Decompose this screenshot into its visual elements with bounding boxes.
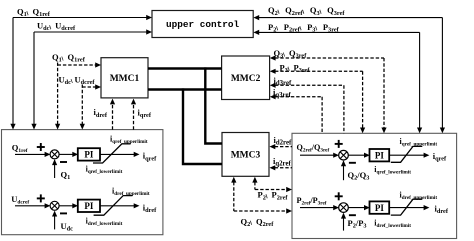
wire feedback into summing junction — [54, 160, 56, 178]
svg-text:PI: PI — [84, 150, 93, 160]
wire idref from left controller to MMC1 — [112, 104, 114, 130]
summing junction — [50, 201, 59, 210]
svg-text:PI: PI — [375, 150, 384, 160]
wire PI to output — [389, 154, 424, 156]
plus sign — [335, 195, 343, 197]
limiter (saturation) — [391, 199, 423, 215]
wire iq3ref from right controller to MMC2 — [270, 94, 322, 133]
wire feedback into summing junction — [54, 212, 56, 230]
wire Udc,Udcref to upper control — [31, 29, 152, 129]
wire dc bus branch to MMC3 lower — [183, 88, 222, 164]
wire setpoint into summing junction — [300, 207, 334, 209]
block upper control — [152, 11, 253, 38]
wire setpoint into summing junction — [15, 153, 46, 155]
wire P3,P3ref to MMC2 and right controller — [270, 69, 365, 134]
limiter (saturation) — [391, 146, 423, 162]
wire feedback into summing junction — [343, 214, 345, 231]
plus sign — [37, 146, 45, 148]
controller box right (MMC2/MMC3 local control) — [292, 133, 457, 238]
wire Q3,Q3ref to MMC2 and right controller — [270, 55, 387, 133]
minus sign — [349, 214, 356, 216]
wire dc bus MMC1 to MMC2 upper — [148, 67, 222, 69]
wire setpoint into summing junction — [300, 154, 334, 156]
wire summing junction to PI — [348, 207, 364, 209]
wire P2,P2ref to MMC3 and right controller — [252, 177, 292, 192]
wire Udc,Udcref to MMC1 and left controller — [80, 84, 101, 129]
wire feedback into summing junction — [343, 161, 345, 180]
wire summing junction to PI — [348, 154, 364, 156]
limiter (saturation) — [93, 144, 131, 163]
block MMC2 — [222, 56, 270, 100]
wire PI to output — [100, 205, 135, 207]
plus sign — [335, 143, 343, 145]
svg-text:MMC3: MMC3 — [231, 151, 261, 161]
summing junction — [339, 150, 349, 160]
wire summing junction to PI — [59, 205, 73, 207]
svg-text:PI: PI — [375, 203, 384, 213]
minus sign — [60, 161, 67, 163]
limiter (saturation) — [94, 196, 133, 216]
PI controller — [370, 201, 390, 213]
minus sign — [349, 162, 356, 164]
wire Q2,Q2ref to MMC3 and right controller — [231, 177, 292, 214]
wire PI to output — [389, 207, 424, 209]
summing junction — [339, 203, 349, 213]
plus sign — [37, 197, 45, 199]
wire dc bus MMC1 to MMC2 lower — [148, 88, 222, 90]
wire id3ref from right controller to MMC2 — [270, 83, 344, 134]
wire summing junction to PI — [59, 153, 73, 155]
wire id2ref from right controller to MMC3 — [270, 144, 276, 149]
wire Q2,Q2ref,Q3,Q3ref to upper control and right controller — [253, 15, 445, 133]
wire setpoint into summing junction — [15, 205, 46, 207]
wire iq2ref from right controller to MMC3 — [270, 165, 276, 170]
svg-text:MMC1: MMC1 — [110, 74, 140, 84]
PI controller — [370, 149, 390, 161]
PI controller — [78, 148, 100, 160]
block MMC3 — [222, 133, 269, 177]
PI controller — [78, 200, 100, 212]
minus sign — [60, 212, 67, 214]
wire dc bus branch to MMC3 upper — [205, 67, 222, 143]
wire Q1,Q1ref to upper control — [10, 15, 152, 130]
controller box left (MMC1 local control) — [2, 130, 163, 235]
svg-text:MMC2: MMC2 — [231, 74, 261, 84]
block MMC1 — [101, 58, 148, 98]
wire Q1,Q1ref to MMC1 and left controller — [55, 62, 101, 129]
wire P2,P2ref,P3,P3ref to upper control and right controller — [253, 30, 422, 134]
svg-text:Q2​/Q3​: Q2​/Q3​ — [348, 170, 370, 182]
svg-text:PI: PI — [84, 201, 93, 211]
wire PI to output — [100, 153, 135, 155]
summing junction — [50, 150, 59, 159]
svg-text:upper control: upper control — [166, 19, 240, 30]
wire iqref from left controller to MMC1 — [133, 104, 135, 130]
